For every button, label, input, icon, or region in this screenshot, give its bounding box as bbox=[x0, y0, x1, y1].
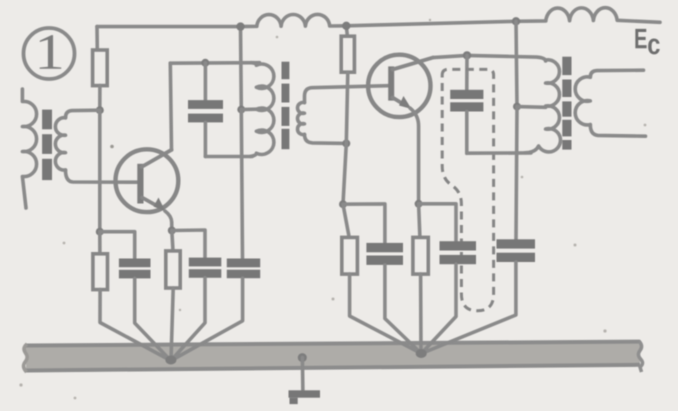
wire R1 to node A bbox=[98, 86, 102, 111]
wire Q2 collector to T3 bbox=[433, 55, 546, 61]
node T3 center tap junction bbox=[513, 103, 521, 111]
wire supply2 down to C7 bbox=[516, 107, 517, 240]
transformer T3 primary winding bbox=[525, 60, 560, 153]
resistor R2 bbox=[93, 232, 171, 361]
capacitor C4 bbox=[171, 259, 260, 361]
capacitor C6 bbox=[419, 204, 476, 354]
wire bias vertical node A to node B bbox=[98, 110, 102, 232]
wire Q1 collector riser bbox=[170, 63, 171, 150]
node fan2 joint on bus bbox=[416, 349, 427, 358]
wire rail corner down to R1 bbox=[95, 27, 99, 51]
node supply junction on rail bbox=[236, 22, 244, 30]
wire bottom of stage1 tank bbox=[205, 155, 252, 159]
transformer T2 secondary winding bbox=[298, 102, 305, 134]
wire T2 secondary top to Q2 base bbox=[305, 86, 389, 103]
capacitor C8 neutralizing in dashed outline bbox=[450, 55, 483, 153]
transformer T3 core bbox=[562, 57, 571, 150]
transistor Q2 bbox=[368, 55, 433, 117]
wire supply drop down to C4 bbox=[241, 110, 242, 259]
node C8 top junction bbox=[463, 51, 471, 59]
node ground tap on bus bbox=[298, 353, 307, 362]
wire T2 secondary bottom to node D bbox=[305, 134, 347, 143]
resistor R1 bbox=[93, 50, 108, 86]
ground bbox=[289, 358, 321, 405]
node E junction bbox=[339, 200, 347, 208]
resistor R4 stage2 bias bbox=[341, 26, 354, 144]
transistor Q1 bbox=[115, 149, 178, 212]
wire T1 secondary bottom to Q1 base bbox=[66, 170, 138, 182]
transformer T1 primary winding bbox=[22, 89, 36, 208]
wire T1 secondary top to node A bbox=[66, 110, 100, 118]
capacitor C7 bbox=[422, 239, 536, 353]
node B junction bbox=[96, 228, 104, 236]
node F junction bbox=[415, 200, 423, 208]
resistor R6 bbox=[413, 204, 428, 354]
capacitor C1 stage1 tank bbox=[188, 63, 223, 157]
transformer T2 core bbox=[282, 62, 290, 150]
transformer T1 core bbox=[42, 110, 52, 181]
resistor R5 bbox=[342, 204, 422, 353]
transformer T2 primary winding bbox=[251, 63, 274, 157]
capacitor C5 bbox=[343, 204, 421, 354]
wire T2 center tap bbox=[241, 107, 256, 111]
node D junction stage2 base bias bbox=[342, 139, 350, 147]
wire node D down to node E bbox=[343, 143, 346, 204]
supply rail Ec wire bbox=[97, 8, 660, 27]
transformer T1 secondary winding bbox=[55, 118, 65, 170]
ground bus bar bbox=[24, 341, 643, 372]
wire C8 bottom to T3 primary bottom bbox=[467, 151, 531, 155]
node A junction bbox=[96, 106, 104, 114]
capacitor C3 bbox=[171, 230, 221, 361]
wire supply drop to T2 center tap bbox=[239, 27, 243, 110]
wire Q1 emitter down to node C bbox=[165, 211, 172, 231]
resistor R3 bbox=[166, 231, 180, 361]
wire T3 secondary top output bbox=[590, 70, 643, 77]
wire T3 secondary bottom output bbox=[590, 125, 645, 137]
node fan1 joint on bus bbox=[165, 356, 176, 365]
node C junction bbox=[168, 227, 176, 235]
dashed outline around C8 bbox=[442, 69, 493, 310]
label Ec bbox=[635, 29, 659, 54]
wire T3 center tap bbox=[517, 105, 546, 109]
figure number 1 in circle bbox=[24, 28, 75, 79]
wire Q2 emitter down to node F bbox=[410, 108, 419, 204]
node T2 center tap junction bbox=[237, 106, 245, 114]
node rail junction at R4 bbox=[342, 22, 350, 30]
capacitor C2 bbox=[100, 232, 171, 361]
transformer T3 secondary winding bbox=[575, 77, 590, 125]
node tank1 top junction bbox=[201, 59, 209, 67]
wire supply2 drop to T3 center tap bbox=[516, 21, 517, 106]
wire top of stage1 tank bbox=[170, 61, 259, 65]
node supply2 junction on rail bbox=[512, 17, 520, 25]
